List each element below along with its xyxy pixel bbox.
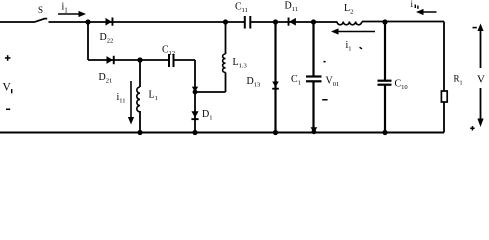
wire top rail left of switch: [0, 21, 34, 23]
node junction L1 bottom: [137, 130, 142, 135]
capacitor C11: [245, 16, 251, 29]
current arrow i11: [128, 81, 134, 125]
svg-text:D21: D21: [99, 72, 113, 85]
wire top rail L2 to right corner: [362, 21, 444, 23]
wire top rail C11 to L2: [251, 21, 337, 23]
wire branch D21 segment: [88, 59, 169, 61]
wire D13 branch: [274, 22, 276, 133]
current arrow i0: [416, 9, 437, 15]
voltage arrow V down: [477, 88, 483, 127]
node junction D13 top: [273, 19, 278, 24]
svg-text:i: i: [411, 0, 414, 9]
wire L13 top vertical: [225, 22, 227, 54]
node junction at switch branch: [85, 19, 90, 24]
wire C12 to corner: [174, 59, 195, 61]
svg-text:L1: L1: [149, 90, 158, 103]
label V plus: [470, 126, 474, 130]
wire corner down to node: [194, 60, 196, 92]
node junction D13 bottom: [273, 130, 278, 135]
svg-text:C1: C1: [291, 74, 301, 87]
svg-text:D22: D22: [100, 32, 114, 45]
wire node to L13 bottom: [195, 91, 226, 93]
label Vin plus: [5, 55, 11, 61]
resistor R0: [441, 91, 447, 102]
inductor L2: [337, 22, 362, 25]
wire L1 branch bottom: [139, 111, 141, 133]
wire C10 branch bottom: [384, 85, 386, 133]
svg-text:D13: D13: [247, 76, 261, 89]
voltage arrow V up: [477, 24, 483, 69]
wire C1 branch top: [312, 22, 314, 76]
svg-text:R1: R1: [454, 74, 463, 87]
wire C1 branch bottom: [312, 82, 314, 133]
node junction C10 top: [382, 19, 387, 24]
diode D21: [107, 56, 115, 64]
current arrow i12 below L2: [331, 28, 375, 34]
capacitor C1: [306, 77, 322, 82]
node arrow into D1 node: [192, 87, 198, 92]
diode D22: [106, 18, 114, 26]
svg-text:C12: C12: [162, 45, 175, 58]
svg-text:i1: i1: [62, 2, 69, 15]
label V minus: [473, 27, 477, 29]
switch S blade: [34, 19, 47, 23]
node junction L13 top: [223, 19, 228, 24]
wire C10 branch top: [384, 22, 386, 80]
wire L13 bottom vertical: [225, 72, 227, 92]
wire right vertical to R0: [443, 22, 445, 92]
wire L1 branch top: [139, 60, 141, 87]
node junction D1 top: [193, 90, 198, 95]
inductor L13: [223, 54, 226, 72]
svg-text:V: V: [477, 74, 485, 86]
svg-text:V: V: [3, 82, 12, 94]
node junction C1 top: [311, 19, 316, 24]
svg-text:D1: D1: [202, 109, 212, 122]
capacitor C10: [378, 81, 392, 85]
svg-text:C11: C11: [235, 1, 248, 14]
wire junction A down: [87, 22, 89, 60]
label V01 minus bottom: [322, 99, 327, 101]
capacitor C12: [169, 54, 174, 67]
label V01 minus top: [323, 61, 325, 63]
node junction C10 bottom: [382, 130, 387, 135]
current arrow i1: [58, 11, 86, 17]
diode D1: [191, 111, 198, 120]
label Vin minus: [6, 109, 10, 111]
wire top rail switch to C11: [49, 21, 245, 23]
svg-text:V01: V01: [326, 76, 340, 89]
inductor L1: [137, 87, 140, 112]
svg-text:D11: D11: [285, 1, 299, 14]
svg-text:i1: i1: [346, 40, 352, 53]
svg-text:i11: i11: [117, 92, 126, 105]
node junction D1 bottom: [192, 130, 197, 135]
svg-text:L2: L2: [344, 3, 353, 16]
node junction L1 top: [137, 57, 142, 62]
wire bottom rail: [0, 131, 444, 133]
wire R0 to bottom rail: [443, 102, 445, 133]
diode D11: [288, 18, 296, 26]
wire D1 branch: [194, 92, 196, 133]
svg-text:S: S: [38, 5, 43, 15]
svg-text:L1.3: L1.3: [233, 57, 247, 70]
diode D13: [272, 82, 279, 90]
svg-text:C10: C10: [395, 79, 408, 92]
node junction C1 bottom: [311, 127, 318, 133]
